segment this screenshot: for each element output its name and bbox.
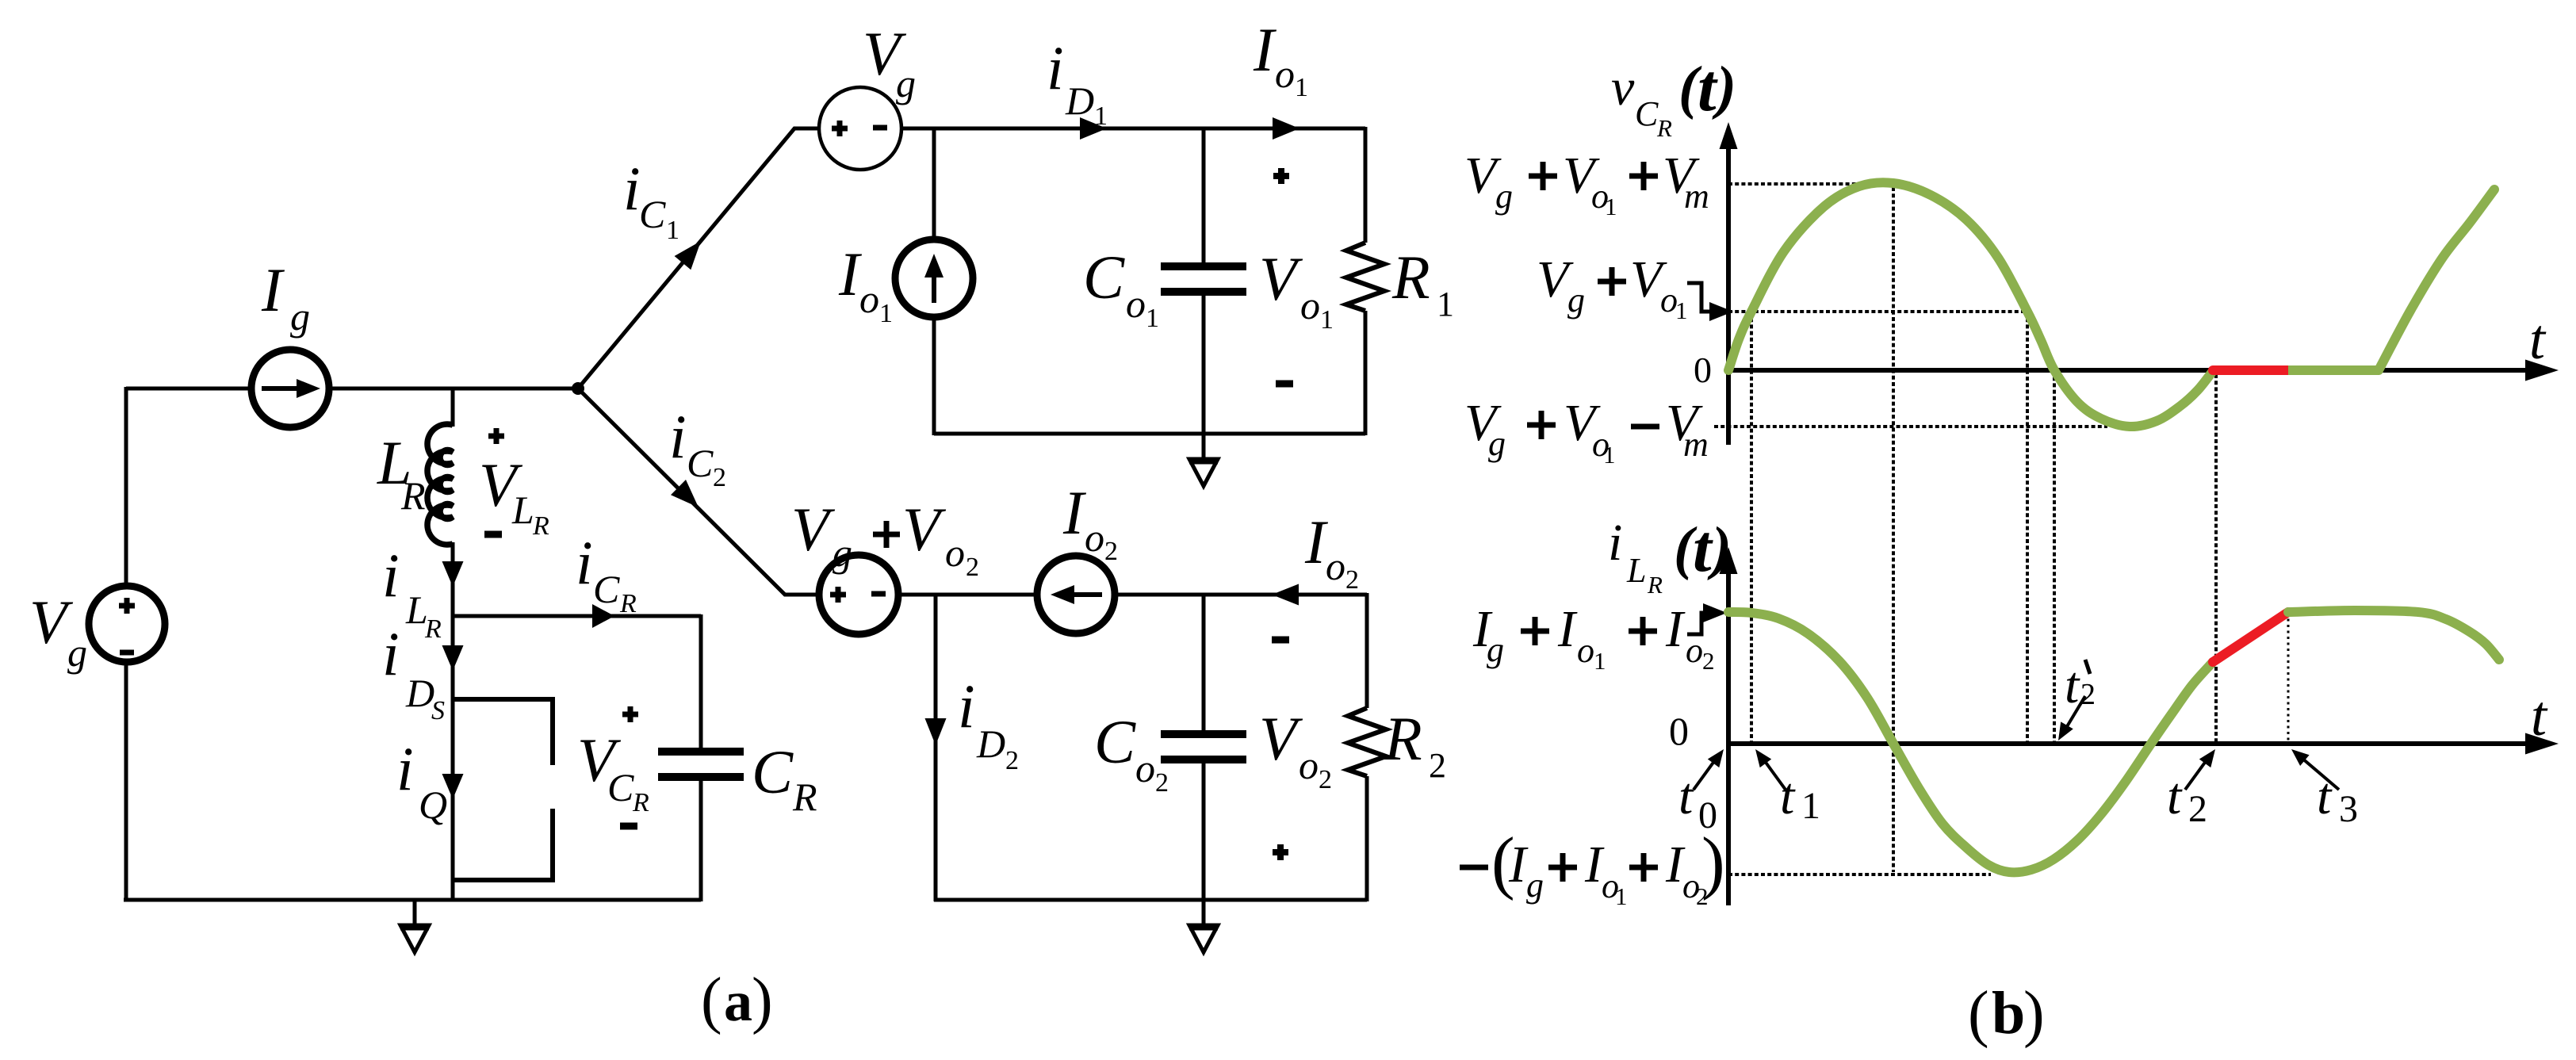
voltage source Vg (independent) xyxy=(89,586,165,662)
svg-text:Q: Q xyxy=(419,783,447,827)
svg-text:2: 2 xyxy=(1429,746,1446,785)
capacitor Co2 xyxy=(1161,730,1246,738)
current arrow iDS xyxy=(442,645,464,671)
dashed vertical t2' xyxy=(2053,370,2056,742)
svg-text:g: g xyxy=(1487,630,1504,669)
svg-text:V: V xyxy=(1259,704,1303,773)
svg-text:v: v xyxy=(1611,59,1635,117)
svg-text:1: 1 xyxy=(1594,647,1606,675)
svg-text:2: 2 xyxy=(1345,565,1359,595)
svg-text:o: o xyxy=(1135,746,1155,790)
svg-text:t: t xyxy=(2065,656,2080,714)
svg-text:1: 1 xyxy=(1605,193,1617,220)
svg-text:R: R xyxy=(1391,243,1430,312)
svg-text:C: C xyxy=(593,567,620,611)
current arrow Io1 (top rail) xyxy=(1273,117,1299,140)
svg-text:3: 3 xyxy=(2339,788,2358,830)
svg-text:1: 1 xyxy=(1437,285,1454,323)
svg-text:m: m xyxy=(1684,177,1709,216)
svg-text:V: V xyxy=(791,495,836,564)
svg-text:S: S xyxy=(431,696,445,725)
svg-text:C: C xyxy=(1083,243,1125,312)
svg-text:0: 0 xyxy=(1694,350,1712,390)
svg-text:i: i xyxy=(623,154,641,223)
svg-text:1: 1 xyxy=(879,299,893,328)
svg-text:1: 1 xyxy=(1295,73,1308,102)
svg-text:I: I xyxy=(261,255,285,324)
time marker t2 xyxy=(2185,755,2210,790)
wire: Co2 top lead xyxy=(1202,593,1206,731)
svg-text:i: i xyxy=(669,402,687,471)
ground (circuit1) xyxy=(1202,434,1206,459)
svg-text:g: g xyxy=(290,294,310,339)
iLR red linear t2-t3 xyxy=(2213,612,2288,662)
current arrow Io2 (top rail) xyxy=(1272,584,1299,606)
current source Io1 xyxy=(895,239,973,317)
wire: Co1 bottom lead xyxy=(1202,295,1206,435)
resistor R1 xyxy=(1364,127,1368,243)
ground (main rail) xyxy=(413,900,417,925)
svg-text:o: o xyxy=(1275,52,1295,96)
svg-text:t: t xyxy=(2317,767,2333,825)
svg-text:i: i xyxy=(576,528,593,597)
resistor R2 xyxy=(1365,593,1369,708)
svg-text:I: I xyxy=(1253,15,1277,84)
svg-text:g: g xyxy=(1488,424,1506,463)
iLR green curve xyxy=(1728,612,2213,872)
svg-text:i: i xyxy=(382,619,400,688)
capacitor CR xyxy=(658,748,744,756)
label Vo1 xyxy=(1273,173,1289,179)
svg-text:D: D xyxy=(405,671,434,715)
label -(Ig+Io1+Io2) xyxy=(1460,865,1488,871)
svg-text:L: L xyxy=(1626,551,1646,590)
vCR red clamp t2-t3 xyxy=(2213,365,2288,375)
current arrow iD1 xyxy=(1080,117,1107,140)
svg-text:o: o xyxy=(1300,283,1320,327)
svg-text:b: b xyxy=(1992,980,2025,1047)
svg-text:2: 2 xyxy=(1702,647,1715,675)
svg-text:R: R xyxy=(619,589,637,618)
wire: circuit1 top rail xyxy=(901,127,1365,131)
svg-text:R: R xyxy=(424,614,442,644)
wire: Co1 top lead xyxy=(1202,127,1206,263)
axis: iLR horizontal xyxy=(1728,741,2532,746)
svg-text:I: I xyxy=(1665,600,1686,658)
wire: left vertical top xyxy=(124,387,128,587)
dependent voltage source Vg (top) xyxy=(819,87,901,170)
svg-text:g: g xyxy=(67,630,87,675)
capacitor Co1 xyxy=(1161,262,1246,270)
svg-text:a: a xyxy=(724,970,752,1033)
wire: Co2 bottom lead xyxy=(1202,763,1206,901)
svg-text:): ) xyxy=(752,966,773,1035)
svg-text:0: 0 xyxy=(1698,794,1717,836)
svg-text:I: I xyxy=(1062,478,1087,547)
svg-text:i: i xyxy=(958,672,975,740)
svg-text:g: g xyxy=(896,61,916,105)
svg-text:1: 1 xyxy=(1094,101,1108,131)
svg-text:C: C xyxy=(607,765,634,809)
svg-text:g: g xyxy=(1526,866,1544,905)
svg-text:1: 1 xyxy=(1146,304,1159,333)
svg-text:C: C xyxy=(687,441,714,485)
current arrow iD2 xyxy=(925,718,947,745)
dashed vertical t1 xyxy=(1750,312,1753,742)
wire: circuit1 left branch upper xyxy=(932,127,936,239)
svg-text:i: i xyxy=(1047,33,1064,102)
svg-text:g: g xyxy=(1567,281,1585,320)
svg-text:C: C xyxy=(752,737,794,806)
svg-text:0: 0 xyxy=(1669,709,1689,753)
svg-text:D: D xyxy=(976,721,1005,766)
current arrow iC2 xyxy=(671,480,699,507)
node A (junction dot) xyxy=(572,382,584,395)
svg-text:t: t xyxy=(1693,511,1713,586)
wire: main bus right segment xyxy=(328,387,578,391)
svg-text:(: ( xyxy=(1968,979,1989,1049)
svg-text:R: R xyxy=(632,788,649,817)
vCR green flat xyxy=(2288,365,2379,375)
svg-text:): ) xyxy=(2023,979,2045,1049)
svg-text:g: g xyxy=(833,530,852,575)
vCR green tail xyxy=(2379,189,2494,370)
wire: T junction to CR (iCR) xyxy=(453,614,701,618)
wire: source to Io2 xyxy=(898,593,1036,597)
svg-text:L: L xyxy=(511,488,534,532)
wire: diagonal to lower source xyxy=(578,388,820,595)
time marker t0 xyxy=(1694,755,1719,790)
svg-text:t: t xyxy=(2529,308,2547,371)
current arrow iCR xyxy=(592,604,614,628)
svg-text:2: 2 xyxy=(2080,678,2096,711)
time marker t2' xyxy=(2061,696,2085,736)
svg-text:o: o xyxy=(1085,515,1104,560)
wire: left vertical bottom xyxy=(124,661,128,901)
svg-text:2: 2 xyxy=(966,553,979,582)
dashed level Vg+Vo1-Vm xyxy=(1714,425,2107,428)
time marker t1 xyxy=(1760,755,1786,790)
svg-text:1: 1 xyxy=(1675,297,1688,324)
svg-text:t: t xyxy=(1780,767,1796,825)
svg-text:t: t xyxy=(2531,684,2548,748)
wire: bottom ground rail xyxy=(124,898,701,902)
svg-text:C: C xyxy=(1094,707,1136,776)
svg-text:t: t xyxy=(1678,767,1694,825)
wire: main bus left segment xyxy=(126,387,252,391)
svg-text:2: 2 xyxy=(713,463,726,492)
svg-text:o: o xyxy=(1299,743,1319,787)
label VLR xyxy=(488,434,504,439)
svg-text:o: o xyxy=(1126,281,1146,326)
dashed vertical crossing xyxy=(2026,312,2029,742)
wire: circuit2 top rail right xyxy=(1115,593,1367,597)
svg-text:o: o xyxy=(1577,631,1594,670)
wire: diagonal to upper source xyxy=(578,128,819,388)
svg-text:D: D xyxy=(1065,78,1094,123)
current source Io2 xyxy=(1037,556,1115,633)
wire: CR top lead xyxy=(699,614,703,748)
dashed vertical t2 xyxy=(2214,374,2218,742)
wire: circuit1 bottom rail xyxy=(934,432,1365,436)
svg-text:2: 2 xyxy=(2188,788,2207,830)
svg-text:R: R xyxy=(1647,571,1663,599)
wire: circuit2 bottom rail xyxy=(934,898,1367,902)
wire: switch leg xyxy=(451,616,455,901)
switch Q (open contact) xyxy=(453,699,553,765)
svg-text:1: 1 xyxy=(1801,785,1820,827)
svg-text:o: o xyxy=(859,277,879,321)
svg-text:t: t xyxy=(1698,51,1718,125)
ground (circuit2) xyxy=(1202,900,1206,925)
svg-text:2: 2 xyxy=(1319,765,1332,794)
svg-text:C: C xyxy=(639,192,666,236)
svg-text:1: 1 xyxy=(1320,305,1334,335)
dashed vertical peak xyxy=(1892,187,1895,872)
svg-text:(: ( xyxy=(701,966,722,1035)
label VCR xyxy=(622,712,638,718)
time marker t3 xyxy=(2296,753,2339,790)
svg-text:2: 2 xyxy=(1005,746,1019,775)
svg-text:2: 2 xyxy=(1104,537,1118,566)
svg-text:t: t xyxy=(2167,767,2183,825)
dotted vertical t3 xyxy=(2287,613,2290,742)
inductor LR xyxy=(427,424,453,545)
wire: circuit1 left branch lower xyxy=(932,317,936,435)
axis: vCR vertical xyxy=(1726,139,1731,445)
svg-text:2: 2 xyxy=(1155,768,1169,798)
svg-text:o: o xyxy=(1326,544,1345,588)
svg-text:o: o xyxy=(1686,631,1703,670)
iLR green flat top + tail xyxy=(2288,610,2499,660)
svg-text:R: R xyxy=(1384,704,1422,773)
svg-text:i: i xyxy=(382,541,400,610)
dependent voltage source Vg+Vo2 xyxy=(819,555,898,634)
svg-text:V: V xyxy=(1259,244,1303,313)
dashed level Vg+Vo1+Vm xyxy=(1728,182,1893,186)
current source Ig xyxy=(251,350,329,427)
svg-text:g: g xyxy=(1495,177,1513,216)
svg-text:i: i xyxy=(1608,514,1622,572)
vCR green curve xyxy=(1728,182,2213,427)
axis: vCR horizontal xyxy=(1728,368,2532,373)
current arrow iC1 xyxy=(675,241,701,270)
current arrow iLR xyxy=(442,561,464,587)
svg-text:I: I xyxy=(1557,600,1578,658)
svg-text:o: o xyxy=(945,530,965,575)
svg-text:i: i xyxy=(396,734,414,803)
wire: bus to inductor xyxy=(451,387,455,427)
wire: inductor to T junction xyxy=(451,542,455,618)
svg-text:m: m xyxy=(1683,425,1709,464)
svg-text:V: V xyxy=(902,495,947,564)
svg-text:1: 1 xyxy=(1615,882,1628,910)
dashed level Vg+Vo1 xyxy=(1728,310,2027,313)
svg-text:C: C xyxy=(1635,94,1659,133)
svg-text:1: 1 xyxy=(1603,441,1616,469)
wire: circuit2 left branch xyxy=(934,593,938,901)
svg-text:R: R xyxy=(532,511,549,541)
current arrow iQ xyxy=(442,774,464,799)
svg-text:R: R xyxy=(792,775,817,819)
dashed level -(Ig+Io1+Io2) xyxy=(1728,873,1991,876)
svg-text:R: R xyxy=(400,473,426,518)
svg-text:R: R xyxy=(1656,114,1672,142)
wire: CR bottom lead xyxy=(699,780,703,901)
label Vo2 xyxy=(1272,637,1289,644)
axis: iLR vertical xyxy=(1726,560,1731,905)
svg-text:1: 1 xyxy=(666,216,679,245)
